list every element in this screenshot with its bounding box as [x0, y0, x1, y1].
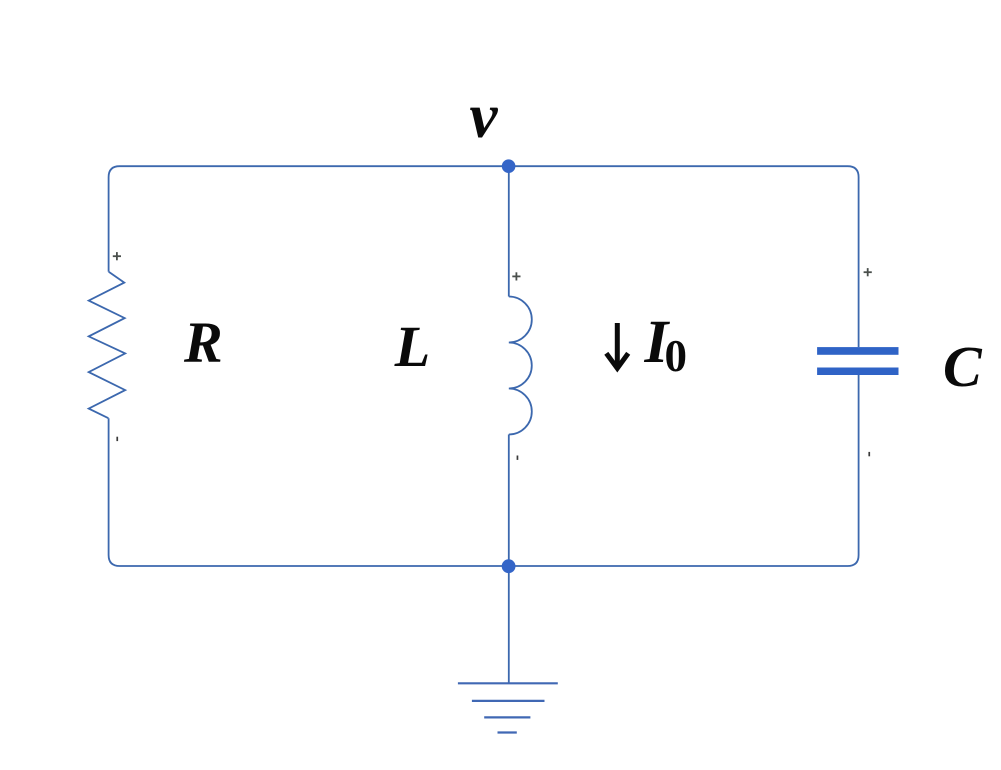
resistor R zigzag [89, 272, 126, 418]
ground [458, 683, 558, 732]
wire: outer loop rounded rectangle (top rail, right edge above capacitor, bottom rail, left edge segments) [89, 166, 859, 683]
wire bottom rail with rounded corners [109, 375, 859, 566]
svg-text:v: v [470, 81, 499, 151]
current arrow I0 [606, 323, 628, 368]
wire top rail with rounded corners [109, 166, 859, 347]
svg-text:R: R [183, 309, 223, 374]
polarity - tick (resistor) [116, 437, 118, 441]
capacitor C plates [817, 347, 898, 375]
wire middle branch upper (node v to inductor) [508, 166, 510, 296]
polarity - tick (inductor) [517, 456, 519, 460]
inductor L coils [509, 297, 532, 435]
svg-text:C: C [943, 334, 983, 399]
wire ground stem [508, 566, 510, 683]
node 0 (bottom junction dot) [502, 559, 516, 573]
polarity + (inductor) [512, 272, 520, 280]
polarity + (resistor) [113, 252, 121, 260]
svg-text:L: L [394, 314, 430, 379]
wire middle branch lower (inductor to bottom rail) [508, 435, 510, 567]
polarity + (capacitor) [864, 268, 872, 276]
svg-text:0: 0 [665, 331, 688, 381]
polarity - tick (capacitor) [868, 452, 870, 456]
node v (top junction dot) [502, 159, 516, 173]
